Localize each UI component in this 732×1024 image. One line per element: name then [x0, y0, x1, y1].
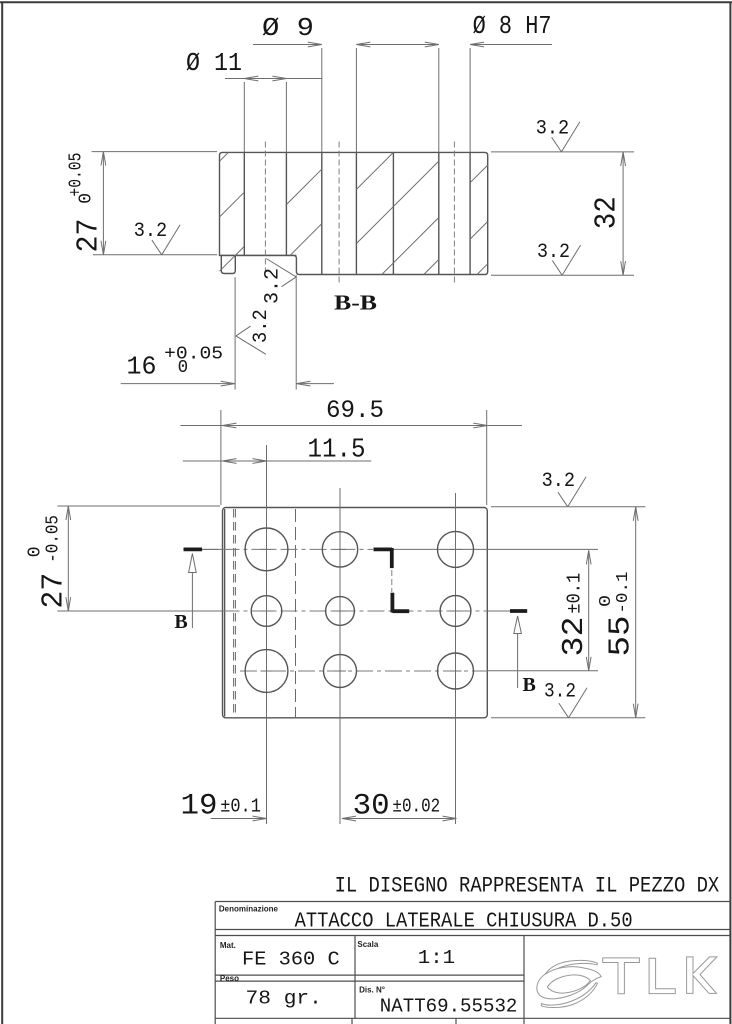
svg-text:27: 27 [72, 219, 107, 253]
svg-text:Denominazione: Denominazione [219, 904, 279, 913]
svg-text:1:1: 1:1 [418, 947, 455, 969]
svg-text:3.2: 3.2 [536, 118, 570, 141]
svg-text:Peso: Peso [220, 974, 239, 983]
svg-text:55: 55 [603, 616, 638, 657]
svg-text:11.5: 11.5 [308, 436, 366, 466]
svg-text:32: 32 [557, 617, 592, 657]
svg-text:27: 27 [36, 573, 71, 609]
svg-text:3.2: 3.2 [262, 268, 285, 304]
svg-text:B-B: B-B [334, 291, 377, 315]
svg-text:3.2: 3.2 [250, 309, 273, 343]
svg-text:±0.02: ±0.02 [392, 795, 440, 817]
svg-text:IL DISEGNO RAPPRESENTA IL PEZZ: IL DISEGNO RAPPRESENTA IL PEZZO DX [335, 874, 720, 899]
svg-text:3.2: 3.2 [537, 241, 570, 264]
svg-text:Dis. N°: Dis. N° [359, 985, 385, 994]
svg-text:±0.1: ±0.1 [220, 795, 261, 817]
svg-text:+0.05: +0.05 [164, 345, 223, 365]
svg-text:ATTACCO LATERALE CHIUSURA D.50: ATTACCO LATERALE CHIUSURA D.50 [295, 910, 633, 933]
svg-text:Ø 8 H7: Ø 8 H7 [473, 11, 552, 41]
svg-text:+0.05: +0.05 [67, 153, 87, 197]
svg-text:±0.1: ±0.1 [564, 573, 586, 614]
svg-text:19: 19 [181, 790, 218, 824]
svg-text:69.5: 69.5 [326, 396, 384, 425]
svg-text:3.2: 3.2 [542, 470, 576, 493]
svg-text:0: 0 [76, 193, 96, 204]
svg-text:FE 360 C: FE 360 C [242, 949, 340, 971]
svg-text:78 gr.: 78 gr. [246, 988, 322, 1010]
svg-text:16: 16 [127, 352, 157, 382]
svg-text:Scala: Scala [357, 940, 378, 949]
svg-text:Ø 11: Ø 11 [186, 48, 242, 78]
svg-text:B: B [174, 611, 187, 633]
svg-text:B: B [523, 674, 536, 696]
svg-text:3.2: 3.2 [544, 680, 576, 703]
svg-text:3.2: 3.2 [134, 220, 168, 243]
svg-text:32: 32 [590, 196, 625, 229]
svg-text:-0.1: -0.1 [614, 572, 633, 614]
svg-text:0: 0 [178, 358, 189, 378]
svg-text:30: 30 [353, 790, 390, 824]
svg-text:-0.05: -0.05 [43, 515, 63, 563]
svg-text:Ø 9: Ø 9 [262, 13, 314, 43]
svg-text:Mat.: Mat. [220, 941, 236, 950]
svg-text:NATT69.55532: NATT69.55532 [380, 996, 518, 1018]
